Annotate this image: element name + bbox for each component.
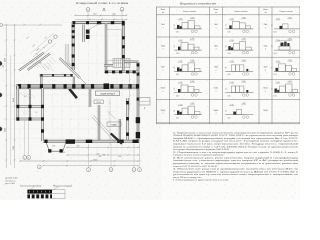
corridor columns (18, 84, 21, 88)
svg-text:165: 165 (174, 88, 176, 90)
diagonal dimension line 2 (30, 33, 54, 54)
svg-text:Пм1: Пм1 (161, 24, 165, 26)
floor detail bar 1 (27, 190, 52, 194)
svg-text:Пм4: Пм4 (161, 45, 165, 47)
bottom dim line 4 (43, 165, 138, 167)
svg-text:1010: 1010 (274, 95, 277, 97)
svg-text:6000: 6000 (96, 153, 99, 155)
svg-text:1010: 1010 (176, 95, 179, 97)
large junction column (104, 83, 110, 89)
svg-text:-2.240: -2.240 (276, 61, 280, 63)
svg-text:п/м: п/м (264, 12, 266, 14)
svg-text:швов в соответствии с СП 15.13: швов в соответствии с СП 15.13330.2012 '… (173, 146, 300, 148)
left dimension line 2 (14, 25, 16, 168)
svg-text:-1.890: -1.890 (190, 39, 194, 41)
lintel sketch (274, 28, 300, 30)
svg-text:Марка: Марка (214, 9, 219, 11)
svg-text:Пм15: Пм15 (263, 110, 268, 112)
svg-text:-1.890: -1.890 (241, 81, 245, 83)
svg-text:Пм5: Пм5 (214, 45, 218, 47)
lintel sketch (274, 70, 300, 72)
svg-text:1010: 1010 (274, 53, 277, 55)
bottom wall columns (44, 140, 47, 143)
room label box (96, 91, 120, 96)
svg-text:1010: 1010 (274, 74, 277, 76)
table column border (258, 7, 260, 124)
bar 1 hatch (29, 191, 30, 193)
left block interior wall (29, 88, 31, 120)
svg-text:-1.890: -1.890 (241, 39, 245, 41)
table row border (156, 98, 300, 100)
bay post right (60, 149, 63, 152)
svg-text:4500: 4500 (13, 98, 15, 102)
svg-text:1010: 1010 (227, 74, 230, 76)
bay middle line (139, 100, 150, 102)
svg-text:250х120х65/1НФ/100/2.0/35 ГОСТ: 250х120х65/1НФ/100/2.0/35 ГОСТ 530-2012 … (173, 134, 299, 137)
lintel sketch (174, 49, 202, 51)
leader line (30, 187, 34, 190)
left block south wall (17, 118, 43, 120)
canopy diagonal line (88, 21, 104, 30)
columns on wall x128 (126, 101, 129, 104)
detail dimension bracket (52, 189, 65, 191)
svg-text:-1.890: -1.890 (288, 81, 292, 83)
inner room outline (107, 29, 121, 60)
svg-text:-1.890: -1.890 (288, 17, 292, 19)
svg-text:165: 165 (225, 88, 227, 90)
svg-text:Пм6: Пм6 (264, 45, 268, 47)
svg-text:1010: 1010 (227, 32, 230, 34)
wing diagonal stair treads (42, 66, 47, 71)
lintel sketch (225, 70, 253, 72)
svg-text:ОБЩИЙ КОРИДОР: ОБЩИЙ КОРИДОР (100, 93, 116, 96)
svg-text:отм.низа 1-го: отм.низа 1-го (5, 181, 15, 183)
svg-text:конструкции'. Актуализированна: конструкции'. Актуализированная редакция… (173, 148, 230, 151)
diagonal grid bubble 2 (54, 35, 57, 38)
svg-text:6000: 6000 (98, 156, 101, 158)
top dimension line (75, 14, 127, 16)
svg-text:Пм12: Пм12 (263, 88, 268, 90)
svg-text:-2.240: -2.240 (229, 40, 233, 42)
svg-text:6000: 6000 (118, 156, 121, 158)
columns on upper left wall (72, 25, 75, 27)
svg-text:-2.240: -2.240 (229, 61, 233, 63)
svg-text:-2.240: -2.240 (229, 82, 233, 84)
right dimension line (129, 60, 131, 110)
svg-text:П2.00: П2.00 (96, 102, 100, 104)
annex east wall big block 2 (136, 132, 140, 138)
grid bubble top 1 (86, 8, 90, 12)
svg-text:п/м: п/м (215, 12, 217, 14)
staircase upper (113, 59, 130, 68)
svg-text:1010: 1010 (176, 74, 179, 76)
left edge grid bubble (cut) (0, 127, 2, 131)
svg-text:165: 165 (272, 88, 274, 90)
grid drop line (24, 120, 26, 155)
bar 2 gaps (30, 194, 32, 198)
left dim ticks (5, 39, 7, 41)
annex east wall big block 1 (136, 117, 140, 123)
leader line 2 (52, 187, 58, 191)
columns on annex east wall (137, 63, 140, 66)
columns on top wall (73, 21, 76, 24)
svg-text:1010: 1010 (176, 53, 179, 55)
svg-text:3000: 3000 (76, 146, 79, 148)
table outer border (156, 7, 300, 124)
svg-text:элементов см. соответствующие: элементов см. соответствующие листы маро… (173, 159, 299, 162)
svg-text:165: 165 (174, 45, 176, 47)
bay post left (48, 149, 51, 152)
svg-text:-1.890: -1.890 (241, 60, 245, 62)
svg-text:1010: 1010 (227, 117, 230, 119)
svg-text:165: 165 (272, 45, 274, 47)
svg-text:165: 165 (225, 110, 227, 112)
svg-text:Марка: Марка (161, 9, 166, 11)
left block columns (16, 105, 19, 108)
svg-text:1500: 1500 (52, 146, 55, 148)
svg-text:Пм8: Пм8 (214, 67, 218, 69)
grid drop (121, 11, 123, 22)
dim ticks line 1 (67, 147, 69, 149)
table row border (156, 36, 300, 38)
svg-text:5. Отметки приведены от уровня: 5. Отметки приведены от уровня чистого п… (173, 180, 229, 182)
wing connector wall right (73, 77, 75, 85)
svg-text:-1.890: -1.890 (190, 103, 194, 105)
left block east wall (42, 88, 44, 141)
svg-text:1: 1 (39, 167, 40, 169)
wing NE edge wall (60, 58, 81, 78)
stair mid rail (113, 62, 130, 64)
svg-text:3: 3 (111, 170, 112, 172)
svg-text:менее 120 мм на кладку стен.: менее 120 мм на кладку стен. (173, 177, 202, 179)
wing bottom wall (40, 74, 74, 76)
svg-text:-1.890: -1.890 (190, 81, 194, 83)
columns on right wall upper (122, 36, 125, 39)
table bottom double border (156, 122, 300, 124)
svg-text:Пм14: Пм14 (214, 110, 219, 112)
svg-text:1010: 1010 (176, 117, 179, 119)
svg-text:Пм11: Пм11 (214, 88, 218, 90)
dimension ticks (19, 160, 21, 162)
svg-text:1500: 1500 (13, 146, 15, 150)
ventilation shaft black blocks (86, 30, 90, 34)
svg-text:и уложены по месту согласно ве: и уложены по месту согласно ведомости пе… (173, 155, 225, 157)
svg-text:п/м: п/м (162, 12, 164, 14)
svg-text:1010: 1010 (227, 53, 230, 55)
grid bubble left pair 2 (27, 156, 31, 160)
stair diagonal lower (92, 117, 116, 143)
svg-text:портландцементе М400 с арматур: портландцементе М400 с арматурой класса … (173, 170, 300, 173)
wing dark wall segment (68, 88, 78, 99)
svg-text:Пм7: Пм7 (161, 67, 165, 69)
table row border (156, 56, 300, 58)
right bay (porch) (139, 98, 150, 106)
svg-text:2. Перемычки стен и перегородо: 2. Перемычки стен и перегородок приняты … (173, 152, 300, 154)
svg-text:165: 165 (174, 66, 176, 68)
wing connector wall left (40, 77, 42, 85)
svg-text:1. Кирпичные стены из полнотел: 1. Кирпичные стены из полнотелого керами… (173, 132, 299, 134)
svg-text:2: 2 (24, 158, 25, 160)
svg-text:24000: 24000 (93, 159, 98, 161)
lower interior wall x99 (98, 105, 100, 141)
diagonal dim ticks (36, 53, 38, 54)
bay window bottom (46, 143, 66, 152)
lower duct wall x120 (119, 119, 121, 141)
svg-text:1010: 1010 (274, 32, 277, 34)
dimension ticks (42, 165, 44, 167)
faint extension (138, 160, 142, 162)
upper block left wall (72, 22, 74, 70)
svg-text:3. Все монтажные узлы, узлы кр: 3. Все монтажные узлы, узлы крепления, м… (173, 156, 299, 159)
svg-text:165: 165 (225, 45, 227, 47)
svg-text:4: 4 (134, 170, 135, 172)
stair treads (114, 59, 116, 68)
svg-text:Марка: Марка (263, 9, 268, 11)
svg-text:-2.240: -2.240 (178, 104, 182, 106)
svg-text:-2.240: -2.240 (178, 82, 182, 84)
dark diagonal wall segment lower (110, 133, 123, 145)
svg-text:102: 102 (35, 112, 38, 114)
svg-text:-2.240: -2.240 (178, 40, 182, 42)
grid drop (87, 11, 89, 22)
svg-text:6000: 6000 (5, 58, 7, 62)
table column border (169, 7, 171, 124)
svg-text:-1.890: -1.890 (241, 17, 245, 19)
top dimension line 2 (75, 18, 127, 20)
corridor wall north (16, 84, 140, 86)
svg-text:Пм10: Пм10 (161, 88, 166, 90)
lintel sketch (174, 114, 202, 116)
faint horizontal construction lines (60, 22, 141, 24)
svg-text:-2.240: -2.240 (178, 19, 182, 21)
svg-text:Состав пола (Забивка): Состав пола (Забивка) (20, 185, 42, 187)
svg-text:165: 165 (174, 110, 176, 112)
bottom wall (43, 140, 139, 142)
annex east wall (137, 62, 139, 143)
scan noise texture (0, 0, 300, 200)
svg-text:Несущая конструкция: Несущая конструкция (53, 185, 72, 187)
top wall end column (122, 21, 125, 26)
room label box 2 (107, 122, 121, 126)
floor detail bar 2 (27, 194, 52, 198)
svg-text:Пм3: Пм3 (264, 24, 268, 26)
svg-text:-2.240: -2.240 (229, 104, 233, 106)
diagonal construction line (36, 43, 56, 61)
svg-text:Ведомость перемычек: Ведомость перемычек (180, 2, 217, 6)
svg-text:Схема сечения: Схема сечения (279, 11, 292, 13)
table column border (208, 7, 210, 124)
lintel sketch (274, 49, 300, 51)
ventilation shaft wall (83, 25, 85, 43)
diagonal dimension line 1 (33, 36, 57, 57)
columns on interior wall y72 (105, 70, 108, 73)
svg-text:-2.240: -2.240 (276, 82, 280, 84)
left edge grid bubble (cut) (0, 61, 2, 65)
lintel sketch (274, 92, 300, 94)
bottom grid bubbles (87, 168, 91, 172)
room hatch left block (20, 92, 26, 98)
interior dimension line x110 (109, 98, 111, 145)
svg-text:-1.890: -1.890 (190, 17, 194, 19)
svg-text:ур.ч.п. 0.000: ур.ч.п. 0.000 (5, 183, 15, 185)
svg-text:ур.земли -0.450: ур.земли -0.450 (5, 178, 17, 180)
room label box small (94, 100, 103, 104)
wing bottom wall blocks (40, 74, 42, 76)
left edge grid bubble (cut) (0, 93, 2, 97)
top-left dim ticks (5, 24, 7, 26)
svg-text:Схема сечения: Схема сечения (183, 11, 196, 13)
svg-text:-1.890: -1.890 (241, 103, 245, 105)
dimension ticks (89, 19, 91, 21)
svg-text:6727-80 через 4 ряда кладки по: 6727-80 через 4 ряда кладки по высоте. Т… (173, 141, 299, 143)
interior wall y72 (104, 71, 138, 73)
svg-text:установить по месту после монт: установить по месту после монтажа плит п… (173, 174, 300, 176)
top-left dimension line (0, 24, 62, 26)
svg-text:-2.240: -2.240 (178, 61, 182, 63)
lintel sketch (225, 28, 253, 30)
svg-text:165: 165 (272, 24, 274, 26)
grid bubble left pair 1 (23, 156, 27, 160)
svg-text:-1.890: -1.890 (288, 39, 292, 41)
svg-text:3: 3 (28, 158, 29, 160)
left dimension line 1 (5, 25, 7, 168)
svg-text:-2.240: -2.240 (276, 19, 280, 21)
svg-text:165: 165 (225, 24, 227, 26)
svg-text:6000: 6000 (112, 14, 116, 16)
svg-text:-2.240: -2.240 (229, 19, 233, 21)
svg-text:-1.890: -1.890 (190, 60, 194, 62)
svg-text:документации, а также прилагае: документации, а также прилагаемые ведомо… (173, 163, 298, 165)
diagonal grid bubble 1 (48, 40, 51, 43)
svg-text:горизонтальных 12 мм, вертикал: горизонтальных 12 мм, вертикальных 10 мм… (173, 143, 299, 146)
svg-text:-2.240: -2.240 (276, 40, 280, 42)
svg-text:165: 165 (225, 66, 227, 68)
svg-text:165: 165 (174, 24, 176, 26)
annex north wall (123, 61, 138, 63)
svg-text:5: 5 (139, 170, 140, 172)
lintel sketch (225, 49, 253, 51)
svg-text:165: 165 (272, 66, 274, 68)
upper block right wall (122, 22, 124, 63)
svg-text:согласно ГОСТ 21.501-2011 и ГО: согласно ГОСТ 21.501-2011 и ГОСТ 21.101-… (173, 166, 218, 168)
bottom dim line 1 (66, 146, 140, 148)
svg-text:-1.890: -1.890 (288, 60, 292, 62)
svg-text:марки М100 с армированием клад: марки М100 с армированием кладки сетками… (173, 138, 299, 140)
svg-text:4. Монолитные участки и армиро: 4. Монолитные участки и армирование выпо… (173, 169, 300, 171)
lintel sketch (225, 114, 253, 116)
lintel sketch (174, 92, 202, 94)
grid bubble top-left (cut) (0, 24, 3, 27)
faint vertical construction lines (19, 80, 21, 160)
wing interior hatch (30, 60, 36, 66)
interior dim ticks x110 (109, 102, 111, 104)
svg-text:900: 900 (63, 152, 66, 154)
grid bubble left 3 (37, 165, 41, 169)
faint scan tint over plan area (0, 0, 162, 200)
annex west wall stub (122, 62, 124, 73)
left dimension line 3 (10, 55, 12, 165)
corridor wall south (16, 87, 140, 89)
wing NE edge continuation (80, 78, 87, 85)
grid drop line 2 (28, 120, 30, 155)
lintel sketch (174, 28, 202, 30)
curved corner wall lines (65, 44, 69, 65)
svg-text:1010: 1010 (227, 95, 230, 97)
svg-text:1010: 1010 (176, 32, 179, 34)
svg-text:Пм9: Пм9 (264, 67, 268, 69)
svg-text:Кладочный план 1-го этажа: Кладочный план 1-го этажа (76, 1, 128, 5)
lintel sketch (225, 92, 253, 94)
svg-text:2: 2 (88, 170, 89, 172)
bottom main dim line (20, 160, 138, 162)
interior wall y65 (104, 64, 113, 66)
dim ticks line 2 (67, 154, 69, 156)
svg-text:Пм13: Пм13 (161, 110, 166, 112)
lintel sketch (174, 70, 202, 72)
svg-text:Пм2: Пм2 (214, 24, 218, 26)
interior wall x106 (105, 24, 107, 71)
svg-text:3000: 3000 (5, 128, 7, 132)
table column border (222, 7, 224, 124)
left block interior wall h (17, 106, 43, 108)
dimension ticks (74, 15, 76, 17)
bottom dim line 2 (66, 154, 140, 156)
upper block top wall (72, 21, 125, 23)
lower interior wall x90 (89, 89, 91, 107)
table column border (271, 7, 273, 124)
window sill lines top wall (76, 22, 86, 24)
grid bubble top 2 (120, 7, 124, 11)
wing NW edge wall inner (28, 54, 51, 71)
wing NW edge wall outer (19, 53, 44, 71)
table row border (156, 14, 300, 16)
table row border (156, 79, 300, 81)
svg-text:6000: 6000 (93, 14, 97, 16)
left block west wall (17, 86, 19, 120)
svg-text:М: М (103, 154, 105, 156)
right dim ticks (129, 63, 131, 65)
section mark M flag (102, 10, 106, 12)
svg-text:Схема сечения: Схема сечения (234, 11, 247, 13)
large dark block bottom (66, 139, 75, 143)
lower interior wall x128 (127, 98, 129, 141)
